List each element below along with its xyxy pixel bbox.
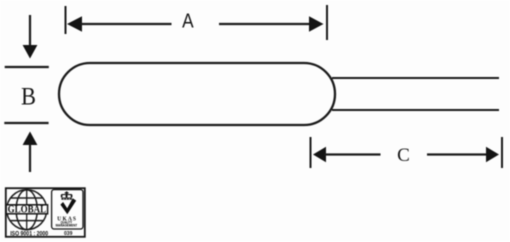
svg-text:C: C: [397, 145, 410, 166]
svg-text:ISO 9001 : 2000: ISO 9001 : 2000: [10, 231, 49, 237]
svg-text:A: A: [182, 11, 194, 33]
svg-text:039: 039: [64, 231, 73, 237]
svg-text:GLOBAL: GLOBAL: [8, 205, 47, 216]
svg-text:MANAGEMENT: MANAGEMENT: [56, 224, 78, 228]
svg-text:B: B: [21, 84, 36, 111]
